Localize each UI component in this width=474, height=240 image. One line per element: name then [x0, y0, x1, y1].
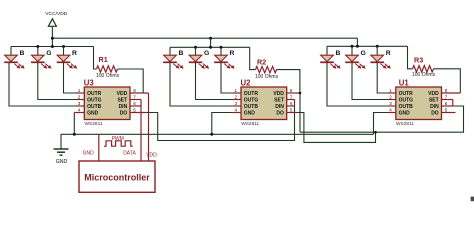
wire U3 SET-DIN tie — [140, 100, 142, 107]
svg-text:R: R — [72, 50, 77, 57]
wire mc VDD to U3 VDD — [148, 93, 150, 161]
node group1 rail R — [62, 45, 65, 48]
svg-text:DO: DO — [276, 111, 284, 117]
node group3 rail R — [376, 45, 379, 48]
wire net to U1 DIN — [300, 106, 464, 132]
svg-text:GND: GND — [399, 111, 411, 117]
svg-text:OUTB: OUTB — [244, 104, 259, 110]
svg-text:B: B — [336, 50, 341, 57]
IC U3 WS2811 — [78, 78, 136, 127]
pin U3.3 OUTB stub — [76, 105, 84, 107]
svg-text:R2: R2 — [257, 57, 266, 66]
pin U2.3 OUTB stub — [233, 105, 241, 107]
svg-text:VCC/VDD: VCC/VDD — [45, 11, 67, 17]
svg-text:G: G — [361, 50, 366, 57]
pin U1.7 SET stub — [442, 99, 453, 101]
pin U2.1 OUTR stub — [233, 92, 241, 94]
LED D3-B (B) — [4, 47, 24, 69]
wire ground rail — [61, 133, 374, 135]
svg-text:R3: R3 — [414, 55, 423, 64]
svg-text:VDD: VDD — [273, 91, 284, 97]
pin U3.1 OUTR stub — [76, 92, 84, 94]
wire G led to U2 OUTG — [196, 63, 234, 100]
pin U1.3 OUTB stub — [388, 105, 396, 107]
svg-text:GND: GND — [244, 111, 256, 117]
svg-text:OUTR: OUTR — [244, 91, 259, 97]
node group3 rail G — [351, 45, 354, 48]
wire rail to R3 — [408, 46, 413, 69]
svg-text:OUTB: OUTB — [87, 104, 102, 110]
node group2 rail tap — [209, 46, 212, 49]
wire group2 anode rail — [170, 46, 250, 48]
wire U2 VDD net down — [299, 93, 301, 132]
svg-text:SET: SET — [274, 98, 284, 104]
svg-text:U2: U2 — [241, 78, 252, 87]
svg-text:100 Ohms: 100 Ohms — [96, 73, 120, 79]
IC U1 WS2811 — [389, 78, 447, 127]
ground symbol — [54, 134, 69, 165]
wire mc GND up to rail — [98, 134, 100, 161]
svg-text:B: B — [179, 50, 184, 57]
svg-text:B: B — [20, 50, 25, 57]
pin U3.4 GND stub — [74, 112, 84, 114]
wire rail to R1 — [94, 47, 97, 70]
svg-text:VDD: VDD — [117, 91, 128, 97]
svg-text:VDD: VDD — [146, 153, 157, 159]
svg-text:DO: DO — [431, 111, 439, 117]
svg-text:WS2811: WS2811 — [85, 121, 103, 127]
pin U2.7 SET stub — [287, 99, 295, 101]
LED D3-R (R) — [57, 47, 77, 69]
node main rail tap group2 — [209, 37, 212, 40]
wire R led to U2 OUTR — [221, 63, 233, 93]
wire R3 to U1 VDD — [434, 69, 461, 93]
LED D1-G (G) — [345, 46, 366, 69]
LED D2-B (B) — [163, 47, 183, 69]
pin U3.8 VDD stub — [130, 92, 149, 94]
pin U1.4 GND stub — [388, 112, 396, 114]
svg-text:Microcontroller: Microcontroller — [84, 172, 150, 182]
mc PWM square wave — [104, 141, 133, 146]
LED D2-G (G) — [189, 47, 210, 69]
node U2 GND at rail — [210, 133, 213, 136]
svg-text:OUTR: OUTR — [87, 91, 102, 97]
svg-text:WS2811: WS2811 — [241, 121, 259, 127]
node group1 rail VCC — [51, 45, 54, 48]
wire B led to U2 OUTB — [170, 63, 233, 106]
wire U2 SET-DIN tie — [294, 100, 296, 107]
svg-text:100 Ohms: 100 Ohms — [255, 74, 279, 80]
wire G led to U1 OUTG — [352, 63, 388, 100]
svg-text:DO: DO — [120, 111, 128, 117]
microcontroller box — [79, 161, 155, 192]
svg-text:GND: GND — [83, 151, 95, 157]
svg-text:OUTB: OUTB — [399, 104, 414, 110]
node group2 rail R — [220, 46, 223, 49]
svg-text:GND: GND — [87, 111, 99, 117]
wire B led to U3 OUTB — [9, 63, 76, 106]
node group3 rail tap — [356, 45, 359, 48]
wire R1 to U3 VDD — [118, 69, 144, 93]
LED D2-R (R) — [214, 47, 234, 69]
pin U2.4 GND stub — [233, 112, 241, 114]
wire B led to U1 OUTB — [327, 63, 388, 106]
svg-text:U1: U1 — [399, 78, 410, 87]
node main rail at VCC stem — [51, 37, 54, 40]
svg-text:DIN: DIN — [119, 104, 128, 110]
svg-text:G: G — [204, 50, 209, 57]
wire U2 DO chain — [298, 113, 376, 143]
node ground junction — [73, 133, 76, 136]
wire R led to U1 OUTR — [377, 63, 388, 93]
svg-text:DIN: DIN — [430, 104, 439, 110]
wire R led to U3 OUTR — [64, 63, 77, 93]
svg-text:OUTG: OUTG — [399, 98, 414, 104]
pin U3.6 DIN stub — [130, 105, 141, 107]
svg-text:OUTG: OUTG — [244, 98, 259, 104]
svg-text:OUTR: OUTR — [399, 91, 414, 97]
svg-text:R: R — [386, 50, 391, 57]
svg-text:OUTG: OUTG — [87, 98, 102, 104]
LED D1-R (R) — [370, 46, 390, 69]
wire group1 anode rail — [11, 46, 94, 48]
pin U2.2 OUTG stub — [233, 99, 241, 101]
wire G led to U3 OUTG — [38, 63, 76, 100]
svg-text:SET: SET — [429, 98, 439, 104]
LED D1-B (B) — [320, 46, 340, 69]
node group1 rail B — [36, 45, 39, 48]
svg-text:R1: R1 — [99, 55, 108, 64]
wire group3 anode rail — [327, 45, 408, 47]
svg-text:U3: U3 — [84, 78, 95, 87]
wire R2 to U2 VDD — [277, 70, 300, 93]
corner mark bottom-right — [471, 197, 474, 202]
wire main rail down to group3 — [356, 38, 358, 46]
svg-text:VDD: VDD — [428, 91, 439, 97]
pin U1.5 DO stub — [442, 112, 456, 114]
node group2 rail G — [194, 46, 197, 49]
pin U1.8 VDD stub — [442, 92, 461, 94]
svg-text:100 Ohms: 100 Ohms — [412, 72, 436, 78]
pin U2.5 DO stub — [287, 112, 298, 114]
pin U2.6 DIN stub — [287, 105, 295, 107]
svg-text:R: R — [230, 50, 235, 57]
wire U2 GND to rail — [212, 113, 233, 135]
LED D3-G (G) — [31, 47, 52, 69]
svg-text:DIN: DIN — [275, 104, 284, 110]
pin U3.2 OUTG stub — [76, 99, 84, 101]
pin U3.5 DO stub — [130, 112, 147, 114]
wire U1 SET-DIN tie — [452, 100, 454, 107]
resistor R3 100 Ohms — [412, 55, 436, 78]
wire rail to R2 — [250, 47, 256, 69]
node U2 VDD pin junction — [299, 92, 302, 95]
wire main VCC rail — [52, 37, 357, 39]
power flag VCC/VDD — [45, 11, 67, 46]
resistor R2 100 Ohms — [255, 57, 279, 79]
svg-text:DATA: DATA — [123, 151, 136, 157]
pin U1.2 OUTG stub — [388, 99, 396, 101]
pin U1.6 DIN stub — [442, 105, 453, 107]
IC U2 WS2811 — [234, 78, 292, 127]
svg-text:SET: SET — [117, 98, 127, 104]
wire U1 GND to rail — [374, 113, 389, 135]
wire mc DATA to U3 DIN — [140, 106, 142, 161]
pin U3.7 SET stub — [130, 99, 141, 101]
svg-text:G: G — [46, 50, 51, 57]
resistor R1 100 Ohms — [96, 55, 120, 79]
wire U3 GND down — [73, 113, 75, 135]
wire main rail tap down group2 — [210, 38, 212, 47]
node chain joins net — [374, 131, 377, 134]
pin U2.8 VDD stub — [287, 92, 300, 94]
svg-text:WS2811: WS2811 — [396, 121, 414, 127]
pin U1.1 OUTR stub — [388, 92, 396, 94]
wire U3 DO chain to U2 DIN — [147, 106, 295, 141]
svg-text:GND: GND — [56, 159, 68, 165]
